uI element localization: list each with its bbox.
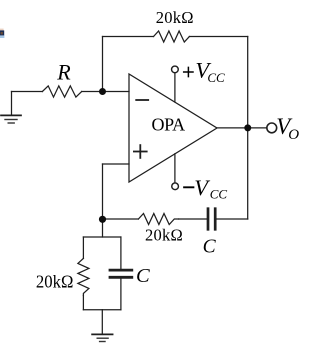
op-amp non-inverting input mark (plus) (134, 145, 147, 158)
ground (bottom) (92, 334, 113, 341)
wire: RC node down to parallel RC box (102, 219, 104, 237)
svg-text:R: R (56, 59, 71, 84)
resistor 20k (parallel, left branch) (78, 237, 89, 310)
wire: non-inverting input (103, 163, 130, 165)
terminal VO circle (267, 123, 277, 133)
svg-text:C: C (203, 237, 217, 258)
svg-text:O: O (288, 127, 299, 143)
resistor 20k (top feedback) (154, 31, 190, 42)
label: -VCC minus sign (184, 186, 193, 188)
node: inverting input junction (99, 88, 106, 95)
svg-text:OPA: OPA (152, 115, 186, 135)
wire: series branch left segment (103, 218, 139, 220)
wire: op-amp output to VO terminal (217, 127, 266, 129)
wire: left ground to resistor R (12, 91, 43, 93)
svg-text:20kΩ: 20kΩ (145, 225, 183, 244)
wire: right vertical (feedback to output node and series branch) (247, 37, 249, 220)
wire: series resistor to capacitor (179, 218, 207, 220)
svg-text:CC: CC (207, 70, 225, 85)
svg-text:CC: CC (210, 187, 228, 202)
svg-text:20kΩ: 20kΩ (36, 271, 74, 291)
op-amp inverting input mark (minus) (136, 99, 148, 101)
wire: R to inverting input of op-amp (82, 91, 129, 93)
op-amp U1 triangle (129, 74, 217, 182)
-VCC pin stub (174, 154, 176, 183)
wire: inverting node up to top feedback (102, 37, 104, 92)
-VCC pin circle (172, 183, 179, 190)
wire: series capacitor to right vertical (217, 218, 248, 220)
resistor R (42, 86, 81, 97)
node: output junction (244, 124, 251, 131)
wire: left vertical down to RC node (102, 164, 104, 219)
node: non-inverting RC junction (99, 216, 106, 223)
wire: top feedback right segment (189, 36, 247, 38)
label: +VCC plus sign (184, 67, 193, 76)
parallel RC box bottom wire (83, 309, 121, 311)
resistor 20k (series) (138, 214, 178, 225)
svg-text:C: C (136, 265, 150, 287)
+VCC pin circle (172, 66, 179, 73)
svg-text:20kΩ: 20kΩ (156, 8, 194, 27)
parallel RC box top wire (83, 236, 121, 238)
capacitor C (series) plates (208, 209, 215, 230)
+VCC pin stub (174, 73, 176, 102)
wire: top feedback left segment (103, 36, 154, 38)
ground (left) (1, 92, 21, 124)
capacitor C (parallel, right branch) (110, 237, 132, 310)
icon fragment top-left (0, 29, 4, 38)
wire: box bottom to ground (101, 310, 103, 335)
